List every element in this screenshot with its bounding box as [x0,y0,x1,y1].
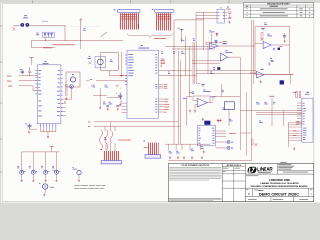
header J4 pins hatch [156,13,172,30]
resistor R9 [161,50,162,53]
capacitor C23 [105,84,107,87]
power VCC pair [180,30,184,32]
svg-text:+: + [221,60,222,62]
wires caps [99,88,101,95]
header pin labels red [121,13,137,16]
revision history table [244,3,314,18]
svg-text:+: + [264,47,265,49]
shield dotted line [30,26,100,28]
left pair wires [65,84,67,96]
capacitor C26 [273,47,275,50]
caps top U14 [217,121,221,123]
wire xtal [121,52,123,76]
wire left edge [253,20,255,84]
DNI mark [89,61,92,64]
ref label [270,57,272,60]
op-amp U10 [209,43,218,49]
capacitor C12 [28,71,31,72]
power 5V to U6 [30,58,34,60]
svg-text:+: + [257,77,258,79]
crystal Y1 [95,56,106,67]
resistor R27 [261,33,263,40]
IC U6 [37,65,61,124]
IC U7 [127,50,159,118]
capacitor C36 [264,101,266,104]
jumper JP6 [280,80,284,84]
slash mark [101,32,107,37]
frame ticks [32,0,34,3]
ferrite FB2 [217,67,220,70]
U6 lower left pins [38,100,41,103]
ground caps [99,106,101,109]
wires into U13 lower [288,122,301,124]
node 5V [80,19,82,21]
wire U11 out [228,56,241,58]
ground U14 [203,150,205,153]
capacitor C13 [36,32,38,35]
svg-text:GROUND-COMPATIBLE DEMONSTRATIO: GROUND-COMPATIBLE DEMONSTRATION BOARD [251,185,309,188]
op-amp U6 label [45,61,47,62]
logo wordmark LINEAR [258,168,273,171]
wire to protection [64,25,66,40]
gnd bus [168,160,251,162]
wire TXD [88,125,90,128]
ground C27 [119,103,121,106]
resistor R6 [193,37,194,40]
capacitor C20 [181,50,183,53]
ground U8 [228,21,230,24]
svg-text:CUSTOMER NOTICE: CUSTOMER NOTICE [181,165,210,167]
capacitor C14 [28,124,32,130]
testpoint right of U6 [70,85,74,89]
resistor R22 [273,101,275,104]
connector JP1 input banana jacks [24,15,27,16]
capacitor C29 [109,101,111,104]
caps row bottom middle [165,143,210,145]
box around crystal [101,53,119,71]
main analog wire [31,40,123,42]
test points TP [227,140,230,143]
zener D2 [216,33,218,37]
capacitor C11 [21,70,25,75]
verticals into caps row [173,126,175,144]
processor U7 label [141,45,143,46]
connector P2 [224,102,234,110]
LT logo [247,167,257,174]
header J1 pins hatch [119,13,139,29]
diode D3 [215,40,218,45]
title block [168,163,313,201]
protection diodes D1 [43,32,55,37]
net flag [12,28,15,31]
resistors R24 R25 [296,92,298,98]
svg-text:REVISION HISTORY: REVISION HISTORY [267,3,291,5]
wire input [14,24,21,26]
connector J2 bar [145,155,161,158]
transistor Q1 [43,184,48,189]
note text [53,43,75,46]
svg-text:+: + [120,87,121,89]
optional buffer box [255,27,290,75]
usb data wires [256,109,302,111]
isolation barrier wires [239,88,241,150]
address block [276,163,278,174]
IC U14 [205,123,207,126]
resistor R14 [213,66,215,69]
svg-text:+: + [198,105,199,107]
ground U6 [47,135,49,138]
power node [201,85,205,87]
connector J4 header [152,8,154,11]
capacitor C21 [92,84,94,87]
misc bottom right marks [255,143,258,146]
connector J3 [66,72,80,87]
svg-text:LINEAR TECHNOLOGY ISOLATED: LINEAR TECHNOLOGY ISOLATED [260,182,299,185]
net labels right of U7 [161,58,165,61]
ground C14 [28,131,30,134]
bus left verticals [192,42,194,84]
capacitor C16 [228,12,231,19]
capacitor C27 [115,93,118,94]
LED D4 row [17,165,19,168]
connector P1 bar [101,161,121,164]
capacitor C30 [271,61,274,62]
connector P1 hatch [103,151,120,161]
op-amp U9B [261,68,264,71]
underbrace digital port [128,33,173,37]
power 5V [261,28,265,30]
wire RXD [88,121,90,124]
bus wires [173,20,175,126]
note text [74,184,80,187]
op-amp U9A [263,41,271,48]
U7 left pins [125,54,127,56]
capacitor C32 [222,89,224,92]
wire vout right [290,75,292,85]
connector J1 header [114,8,116,11]
DNI mark [116,85,119,88]
U6 bottom pins [40,124,42,129]
wires R5 R6 [181,32,183,42]
capacitor C35 [256,101,258,104]
connector P4 corner [186,97,188,126]
resistor R5 [181,37,182,40]
IC U8 [217,10,225,24]
transistor Q2 [77,170,81,174]
wires into U6 left [7,75,11,78]
op-amp U11 [220,53,227,61]
op-amp U9A label [267,33,269,36]
op-amp U12A [197,98,207,107]
resistor R23 [251,140,253,146]
svg-text:DEMO CIRCUIT 2026C: DEMO CIRCUIT 2026C [259,193,300,197]
resistor R7 [159,69,192,71]
capacitor C24 [283,36,286,37]
5V rail bottom [50,146,54,148]
capacitor C28 [103,101,105,104]
regulator U12 [203,88,205,91]
svg-text:+: + [210,48,211,50]
reference U5 [210,29,211,32]
power VCC U7 [119,75,123,77]
connector J2 hatch [148,143,159,155]
resistor R10 [173,50,175,53]
U14 label [204,121,210,125]
wire VCC [90,78,92,81]
wires down to P1 [104,126,106,131]
svg-text:LINDUINO ONE: LINDUINO ONE [269,179,290,182]
IC U13 [306,91,308,94]
twisted pair arcs [100,130,113,150]
